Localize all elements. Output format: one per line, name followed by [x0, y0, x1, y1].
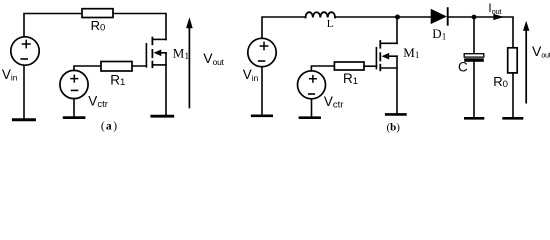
resistor R0 (b) — [508, 48, 518, 73]
transistor M1 (a) source stub — [152, 64, 166, 66]
wire Vin(b) top to rail — [262, 17, 306, 38]
ground (b, R0) — [504, 117, 522, 120]
transistor M1 (b) channel segment top — [379, 41, 381, 48]
wire Vctr(b) top to R1 — [311, 66, 334, 71]
transistor M1 (a) gate bar — [145, 44, 147, 67]
ground (b, C) — [465, 117, 483, 120]
wire Vctr(b) bottom — [311, 99, 313, 117]
resistor R0 (a) — [82, 9, 113, 18]
arrow Vout (b) — [525, 30, 527, 103]
wire node to R0 branch with Iout arrowhead — [474, 17, 513, 48]
wire Vin(b) bottom — [261, 67, 263, 115]
wire inductor to diode — [335, 16, 431, 18]
wire R0(b) to ground — [512, 73, 514, 117]
svg-text:L: L — [327, 18, 334, 30]
wire Vin(a) top to rail — [24, 14, 82, 37]
svg-text:a: a — [106, 121, 112, 133]
transistor M1 (b) channel segment middle — [379, 53, 381, 60]
ground (b, Vin) — [252, 115, 272, 118]
wire node to capacitor — [473, 17, 475, 54]
transistor M1 (b) body arrow — [382, 53, 390, 60]
node junction dot 1 — [395, 15, 400, 20]
source Vctr (b) — [298, 71, 326, 99]
wire source lead to ground (b) — [396, 56, 398, 113]
inductor L — [306, 12, 336, 17]
wire Vctr(a) top to R1 — [74, 66, 101, 70]
transistor M1 (b) gate bar — [375, 48, 377, 69]
wire source lead to ground (a) — [165, 53, 167, 115]
svg-text:): ) — [113, 121, 117, 133]
source Vin (b) — [248, 38, 276, 66]
svg-text:C: C — [458, 59, 468, 74]
svg-text:(b): (b) — [387, 121, 401, 133]
ground (b, M1 source) — [386, 113, 405, 116]
diode D1 — [431, 9, 447, 24]
wire Vctr(a) bottom — [73, 99, 75, 117]
ground (b, Vctr) — [300, 116, 320, 119]
node junction dot 2 — [472, 15, 477, 20]
ground (a, Vctr) — [64, 116, 84, 119]
transistor M1 (b) drain stub — [380, 42, 397, 44]
wire Vin(a) bottom — [23, 65, 25, 118]
transistor M1 (b) channel segment bottom — [379, 65, 381, 71]
resistor R1 (a) — [101, 62, 132, 72]
transistor M1 (a) channel segment middle — [151, 50, 153, 57]
transistor M1 (a) drain stub — [152, 38, 166, 40]
capacitor C bottom plate — [464, 58, 484, 62]
transistor M1 (a) channel segment top — [151, 38, 153, 45]
wire capacitor to ground — [473, 62, 475, 117]
source Vctr (a) — [60, 70, 88, 98]
wire R1 to gate (b) — [364, 65, 376, 67]
transistor M1 (a) channel segment bottom — [151, 62, 153, 68]
resistor R1 (b) — [334, 62, 364, 70]
transistor M1 (b) body wire — [389, 55, 397, 57]
svg-text:(: ( — [101, 121, 105, 133]
capacitor C top plate — [464, 54, 484, 57]
source Vin (a) — [11, 37, 39, 65]
wire rail R0 to drain lead — [113, 14, 166, 40]
transistor M1 (b) source stub — [380, 67, 397, 69]
wire R1 to gate (a) — [132, 65, 146, 67]
transistor M1 (a) body wire — [161, 52, 166, 54]
transistor M1 (a) body arrow — [154, 50, 162, 57]
arrow Vout (a) — [188, 28, 190, 108]
ground (a, Vin) — [13, 118, 34, 121]
ground (a, M1 source) — [152, 115, 173, 118]
wire drain lead (b) — [396, 17, 398, 43]
wire diode to node — [449, 16, 474, 18]
